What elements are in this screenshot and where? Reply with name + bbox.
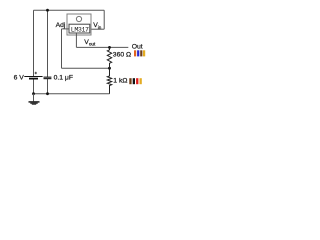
wire Vout horizontal to Out <box>76 46 128 48</box>
regulator U1 LM317 package outline <box>67 14 91 35</box>
wire Vout pin drop <box>75 33 77 47</box>
wire Adj drop <box>61 29 63 68</box>
svg-text:LM317: LM317 <box>71 27 89 34</box>
node junction dot ground rail / battery <box>32 92 35 95</box>
svg-text:1 kΩ: 1 kΩ <box>113 78 127 85</box>
svg-text:360 Ω: 360 Ω <box>113 51 131 58</box>
wire Adj pin horizontal <box>62 28 70 30</box>
wire ground stub <box>33 94 35 102</box>
wire Adj to resistor junction <box>62 67 110 69</box>
wire bottom ground rail <box>34 93 110 95</box>
svg-text:Out: Out <box>132 43 143 50</box>
node junction dot ground rail / capacitor <box>46 92 49 95</box>
regulator U1 LM317 label box <box>69 24 90 33</box>
wire battery top to top rail <box>33 10 35 76</box>
node junction dot Vout / R1 <box>108 46 111 49</box>
svg-text:Adj: Adj <box>56 22 66 29</box>
wire Vin drop from top rail <box>103 10 105 29</box>
resistor color bands 1 kohm (brown black red gold) <box>129 78 142 84</box>
wire Vin pin <box>90 28 104 30</box>
ground symbol <box>29 102 40 104</box>
wire top rail <box>34 9 105 11</box>
wire capacitor bottom lead <box>47 79 49 94</box>
node junction dot Adj / resistors <box>108 67 111 70</box>
resistor R2 1k ohm zigzag <box>107 68 111 94</box>
resistor R1 360 ohm zigzag <box>107 47 111 68</box>
regulator U1 mounting hole <box>76 16 81 21</box>
capacitor 0.1uF <box>44 77 52 79</box>
node junction dot top rail / capacitor <box>46 9 49 12</box>
resistor color bands 360 ohm (orange blue brown gold) <box>134 50 145 56</box>
svg-text:6 V: 6 V <box>14 75 25 82</box>
svg-text:0.1 μF: 0.1 μF <box>54 75 73 82</box>
wire battery bottom to ground rail <box>33 79 35 93</box>
battery 6V <box>24 72 42 79</box>
wire capacitor branch from top rail <box>47 10 49 77</box>
